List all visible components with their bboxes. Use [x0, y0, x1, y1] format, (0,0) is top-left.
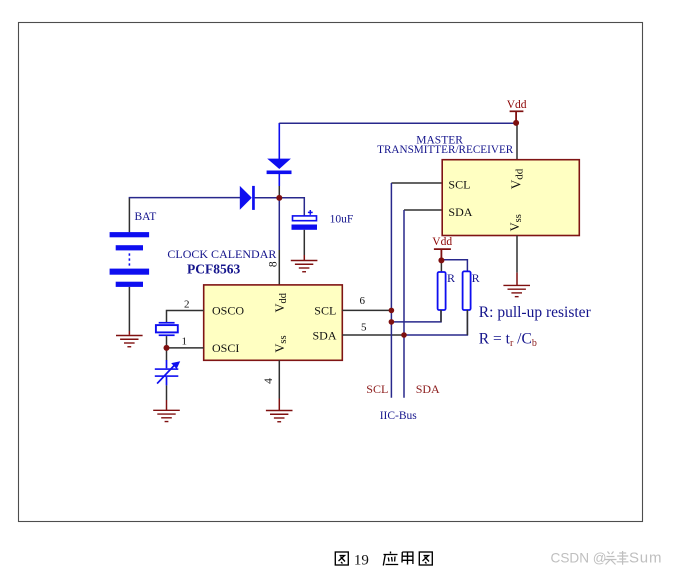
- IC U1 PCF8563 body: [204, 285, 343, 360]
- power symbol Vdd (top): [507, 99, 527, 123]
- wire: trimmer bottom lead: [166, 385, 168, 400]
- ground (under U2): [503, 285, 530, 296]
- svg-text:SCL: SCL: [314, 303, 336, 317]
- crystal X1: [156, 322, 178, 336]
- wire: R1 bottom to SCL bus: [391, 310, 441, 322]
- svg-text:TRANSMITTER/RECEIVER: TRANSMITTER/RECEIVER: [377, 144, 514, 156]
- wire: SCL pin 6: [342, 309, 391, 311]
- svg-text:SCL: SCL: [448, 178, 470, 192]
- wire: SCL bus vertical: [390, 183, 392, 398]
- node: R1 bus join: [389, 319, 395, 325]
- svg-text:R: R: [472, 271, 480, 285]
- svg-text:BAT: BAT: [135, 211, 157, 223]
- svg-text:19: 19: [354, 553, 369, 569]
- svg-text:R: R: [447, 271, 455, 285]
- capacitor C1 10uF (polarized): [292, 210, 318, 230]
- wire: U2 SDA pin stub: [404, 209, 442, 211]
- wire: OSCO pin 2: [167, 311, 204, 323]
- resistor R1: [438, 272, 446, 310]
- svg-text:6: 6: [360, 295, 366, 307]
- node: SDA bus join (pin 5): [401, 332, 407, 338]
- node: OSCI junction: [164, 345, 170, 351]
- ground (under U1 Vss): [266, 411, 293, 422]
- watermark guan (hand-drawn): [605, 552, 617, 565]
- diode D2 (vertical diode to Vdd rail): [267, 123, 292, 196]
- wire: SDA bus vertical: [403, 210, 405, 398]
- ground (under trimmer): [153, 410, 180, 421]
- wire: top Vdd rail: [279, 122, 516, 124]
- svg-text:Sum: Sum: [629, 550, 662, 567]
- svg-text:CLOCK CALENDAR: CLOCK CALENDAR: [167, 247, 276, 261]
- wire: BAT to diode D1: [129, 197, 241, 199]
- wire: Vdd to master box: [516, 123, 518, 160]
- wire: OSCI pin 1: [167, 347, 204, 349]
- wire: junction to capacitor C1: [279, 198, 304, 216]
- ground (under battery): [116, 336, 143, 347]
- resistor R2: [463, 271, 471, 310]
- IC U2 master body: [442, 160, 579, 236]
- power symbol Vdd (pull-ups): [432, 236, 452, 260]
- wire: C1 bottom lead: [303, 230, 305, 255]
- svg-text:OSCO: OSCO: [212, 303, 244, 317]
- ground (under C1): [291, 261, 318, 272]
- wire: BAT top lead: [128, 198, 130, 233]
- wire: R1 bottom lead: [440, 310, 442, 322]
- svg-text:PCF8563: PCF8563: [187, 261, 240, 276]
- trimmer capacitor C2: [155, 360, 180, 385]
- wire: R2 bottom lead: [466, 310, 468, 335]
- node: Vdd pull-up junction: [438, 257, 444, 263]
- battery BT1: [110, 232, 150, 287]
- svg-text:5: 5: [361, 322, 367, 334]
- border frame: [19, 23, 643, 522]
- caption: tu (hand-drawn): [419, 552, 432, 565]
- node: SCL bus join (pin 6): [389, 308, 395, 314]
- svg-text:8: 8: [268, 261, 280, 267]
- svg-text:R = tr /Cb: R = tr /Cb: [479, 330, 537, 349]
- svg-text:SDA: SDA: [416, 382, 440, 396]
- wire: pin 4 Vss lead: [278, 360, 280, 398]
- watermark yu (hand-drawn): [617, 551, 629, 565]
- svg-text:SCL: SCL: [366, 382, 388, 396]
- svg-text:2: 2: [184, 299, 190, 311]
- wire: SDA pin 5: [342, 334, 404, 336]
- wire: trimmer top lead: [166, 348, 168, 360]
- wire: D1 to junction: [255, 197, 280, 199]
- svg-text:1: 1: [182, 336, 188, 348]
- svg-text:SDA: SDA: [448, 205, 472, 219]
- wire: battery bottom lead: [128, 287, 130, 331]
- caption: figure 19 (hand-drawn CJK): [335, 552, 348, 565]
- wire: U2 SCL pin stub: [391, 182, 442, 184]
- svg-text:R: pull-up resister: R: pull-up resister: [479, 304, 592, 321]
- svg-text:4: 4: [263, 378, 275, 384]
- svg-text:OSCI: OSCI: [212, 341, 239, 355]
- watermark CSDN: [551, 551, 607, 566]
- wire: Vdd to R2 top: [441, 260, 467, 272]
- wire: R1 top lead: [440, 260, 442, 272]
- svg-text:IIC-Bus: IIC-Bus: [380, 410, 418, 422]
- wire: crystal to OSCI node: [166, 336, 168, 348]
- caption: yong (hand-drawn): [402, 552, 413, 565]
- svg-text:10uF: 10uF: [330, 214, 354, 226]
- diode D1 (series diode from battery): [240, 186, 255, 210]
- svg-text:CSDN @: CSDN @: [551, 551, 607, 566]
- wire: SDA node to R2 bottom: [404, 310, 467, 335]
- wire: U2 Vss lead: [516, 236, 518, 273]
- svg-text:Vdd: Vdd: [507, 99, 527, 111]
- svg-text:Vdd: Vdd: [432, 236, 452, 248]
- wire: pin 8 Vdd rail down to PCF8563: [278, 198, 280, 250]
- caption: ying (hand-drawn): [383, 552, 398, 566]
- node: main junction A: [276, 195, 282, 201]
- svg-text:SDA: SDA: [313, 329, 337, 343]
- node: Vdd rail junction: [513, 120, 519, 126]
